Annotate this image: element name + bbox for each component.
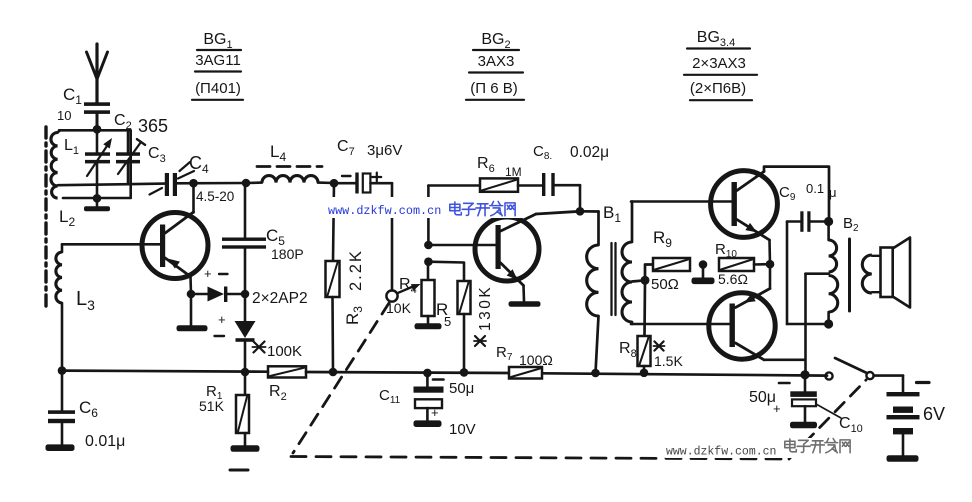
ground R4	[415, 323, 442, 329]
resistor R2	[252, 342, 306, 404]
wire BG3 collector rail	[764, 167, 829, 221]
svg-text:50μ: 50μ	[749, 389, 776, 406]
resistor R3	[326, 183, 366, 372]
node L2-bottom	[93, 194, 102, 203]
wire L3 to BG1 base	[62, 243, 160, 246]
svg-text:365: 365	[138, 116, 168, 136]
node C5-top	[242, 179, 251, 188]
svg-text:100Ω: 100Ω	[519, 352, 553, 368]
dashed link volume-switch	[230, 303, 866, 470]
ground C6	[46, 444, 75, 451]
capacitor C7	[334, 138, 402, 194]
battery 6V	[887, 376, 946, 456]
ground BG2 emitter	[509, 301, 541, 307]
capacitor C6	[48, 371, 125, 450]
resistor R6	[477, 155, 542, 192]
node R1-top	[241, 368, 250, 377]
node B2-prim-bottom	[824, 319, 833, 328]
svg-text:+: +	[773, 401, 781, 416]
capacitor C11	[379, 373, 476, 438]
svg-text:100K: 100K	[267, 343, 302, 360]
node B2-prim-top	[824, 217, 833, 226]
resistor R1	[199, 372, 249, 446]
wire to BG2 base	[428, 244, 495, 247]
label BG3.4 2x3AX3 (2xP6B)	[684, 29, 757, 100]
capacitor C3	[116, 130, 166, 184]
svg-text:(Π401): (Π401)	[195, 80, 241, 97]
svg-text:2.2K: 2.2K	[347, 249, 365, 291]
svg-text:3AX3: 3AX3	[478, 53, 515, 70]
svg-text:0.1: 0.1	[806, 181, 824, 196]
svg-text:1.5K: 1.5K	[654, 353, 683, 369]
antenna	[87, 44, 108, 103]
svg-text:www.dzkfw.com.cn: www.dzkfw.com.cn	[666, 446, 776, 459]
node BG1-emitter	[187, 290, 196, 299]
transformer B2	[806, 215, 881, 375]
node R8-bus	[640, 369, 649, 378]
svg-text:μ: μ	[829, 185, 837, 200]
node B1-bus	[591, 369, 600, 378]
transistor BG2	[475, 211, 580, 301]
watermark www.dzkfw.com.cn bottom	[661, 438, 857, 459]
transformer B1	[580, 202, 632, 373]
wire to BG4 base	[631, 323, 730, 326]
node R5-top	[424, 257, 433, 266]
svg-text:+: +	[218, 312, 226, 327]
transistor BG1	[142, 183, 208, 294]
pot R4 wiper	[386, 276, 421, 316]
watermark www.dzkfw.com.cn center	[322, 197, 528, 218]
ground C10	[790, 422, 817, 429]
ground R1	[231, 445, 260, 452]
capacitor C5	[222, 183, 304, 294]
svg-text:5: 5	[444, 314, 451, 329]
svg-text:3μ6V: 3μ6V	[367, 142, 402, 159]
node R3-top	[330, 179, 339, 188]
diode D1	[191, 266, 245, 302]
svg-text:+: +	[204, 266, 212, 281]
svg-text:4.5-20: 4.5-20	[196, 189, 234, 204]
node B1-tap	[632, 265, 653, 285]
resistor R7	[496, 344, 553, 379]
transistor BG4	[709, 264, 805, 360]
ground L2	[84, 199, 110, 211]
ferrite rod core	[44, 127, 47, 308]
svg-text:(Π 6 B): (Π 6 B)	[470, 80, 518, 97]
svg-text:6V: 6V	[923, 404, 945, 424]
capacitor C1	[57, 85, 110, 129]
node detector	[241, 290, 250, 299]
node emitters	[754, 260, 774, 269]
wire ground bus	[62, 371, 827, 376]
node R9-R10	[699, 260, 708, 278]
ground C11	[414, 420, 442, 427]
label BG2 3AX3 (P6B)	[466, 31, 524, 100]
svg-text:2×3AX3: 2×3AX3	[692, 55, 746, 72]
node tank-top	[93, 125, 102, 134]
node bus-left	[58, 366, 67, 375]
svg-text:3AG11: 3AG11	[195, 52, 241, 69]
coil L2	[52, 186, 76, 229]
switch S1	[825, 358, 903, 380]
wire tank box	[59, 130, 131, 198]
capacitor C9	[779, 181, 837, 324]
resistor R8	[619, 280, 683, 373]
svg-text:130K: 130K	[477, 285, 494, 331]
coil L3	[56, 244, 95, 370]
svg-text:5.6Ω: 5.6Ω	[718, 271, 748, 287]
resistor R10	[715, 241, 754, 287]
wire BG2 base to R6	[428, 186, 480, 246]
label 2x2AP2	[252, 290, 308, 307]
wire to BG3 base	[631, 200, 732, 203]
node BG2-collector	[576, 207, 585, 216]
wire C7 to wiper	[371, 183, 393, 290]
svg-text:50μ: 50μ	[449, 380, 474, 397]
capacitor C8	[533, 143, 609, 211]
capacitor C10	[749, 375, 863, 435]
svg-text:51K: 51K	[199, 398, 225, 414]
wire C4 out	[177, 182, 246, 185]
ground battery	[887, 455, 919, 462]
ground BG1 emitter	[177, 294, 208, 331]
resistor R5	[428, 262, 494, 373]
svg-text:180P: 180P	[271, 246, 304, 262]
node R3-bus	[329, 368, 338, 377]
label BG1 3AG11 (P401)	[192, 31, 243, 100]
ground R9-R10	[692, 278, 715, 285]
capacitor C2	[85, 112, 168, 198]
capacitor C4	[150, 153, 235, 204]
svg-text:1M: 1M	[505, 165, 522, 179]
wire tank to C4	[58, 184, 165, 186]
svg-text:50Ω: 50Ω	[651, 276, 679, 293]
transistor BG3	[711, 171, 778, 265]
svg-text:10V: 10V	[449, 421, 476, 438]
svg-text:2×2AP2: 2×2AP2	[252, 290, 308, 307]
diode D2	[215, 294, 256, 372]
svg-text:www.dzkfw.com.cn: www.dzkfw.com.cn	[328, 204, 441, 218]
resistor R9	[651, 228, 690, 293]
svg-text:0.01μ: 0.01μ	[85, 433, 125, 450]
svg-text:(2×Π6B): (2×Π6B)	[690, 80, 746, 97]
node C11-top	[423, 369, 432, 378]
coil L1	[51, 130, 79, 186]
resistor R4	[422, 262, 435, 324]
node BG1-collector	[189, 179, 198, 188]
svg-text:0.02μ: 0.02μ	[570, 144, 609, 161]
svg-text:+: +	[431, 405, 439, 420]
speaker	[881, 238, 911, 308]
svg-text:10: 10	[57, 108, 71, 123]
node R5-bus	[460, 368, 469, 377]
inductor L4	[246, 142, 334, 183]
node BG2-base	[424, 241, 433, 250]
node battery-bus	[800, 370, 809, 379]
